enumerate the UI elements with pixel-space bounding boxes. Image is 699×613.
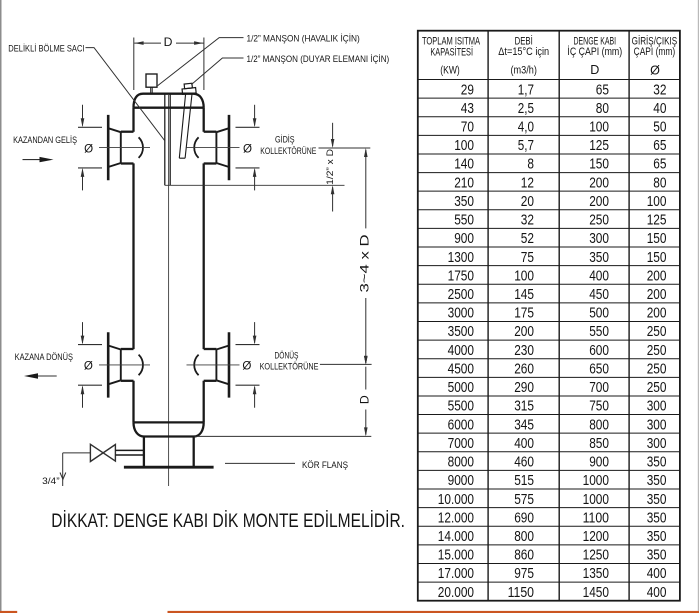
svg-text:20.000: 20.000 bbox=[438, 584, 474, 601]
svg-text:1350: 1350 bbox=[583, 565, 609, 582]
svg-text:1250: 1250 bbox=[583, 547, 609, 564]
leader to air vent fitting bbox=[158, 38, 244, 86]
dimension D (lower) bbox=[365, 367, 367, 390]
open arrowhead on drain bbox=[60, 473, 66, 480]
svg-text:12.000: 12.000 bbox=[438, 509, 474, 526]
nozzle lower-right (dönüş) bbox=[228, 332, 231, 397]
nozzle upper-left (kazandan geliş) bbox=[107, 115, 110, 180]
svg-text:6000: 6000 bbox=[448, 416, 474, 433]
svg-text:KÖR FLANŞ: KÖR FLANŞ bbox=[302, 460, 348, 470]
svg-text:145: 145 bbox=[514, 286, 534, 303]
svg-text:14.000: 14.000 bbox=[438, 528, 474, 545]
svg-text:125: 125 bbox=[589, 137, 609, 154]
svg-text:İÇ ÇAPI (mm): İÇ ÇAPI (mm) bbox=[567, 45, 622, 58]
svg-text:350: 350 bbox=[647, 547, 667, 564]
flow arrow in (right-pointing) bbox=[23, 159, 42, 161]
svg-text:(m3/h): (m3/h) bbox=[511, 64, 537, 76]
leader to sensor fitting bbox=[191, 58, 243, 85]
svg-text:100: 100 bbox=[514, 267, 534, 284]
svg-text:500: 500 bbox=[589, 305, 609, 322]
svg-text:KAPASİTESİ: KAPASİTESİ bbox=[430, 46, 473, 59]
svg-text:4,0: 4,0 bbox=[518, 118, 534, 135]
svg-text:100: 100 bbox=[589, 118, 609, 135]
svg-text:1/2” MANŞON (DUYAR ELEMANI İÇİ: 1/2” MANŞON (DUYAR ELEMANI İÇİN) bbox=[247, 54, 390, 65]
dimension 3~4 x D bbox=[365, 150, 367, 229]
svg-text:3/4”: 3/4” bbox=[42, 476, 60, 487]
diameter ticks lower-right bbox=[236, 344, 260, 346]
perforated baffle plate (delikli bölme sacı) bbox=[164, 94, 166, 186]
page bottom rule (orange) right segment bbox=[168, 611, 699, 613]
label KÖR FLANŞ with leader bbox=[225, 462, 295, 464]
drain valve bbox=[90, 444, 115, 461]
nozzle lower-left (kazana dönüş) bbox=[107, 332, 110, 397]
svg-text:100: 100 bbox=[454, 137, 474, 154]
svg-text:250: 250 bbox=[647, 323, 667, 340]
svg-text:29: 29 bbox=[461, 81, 474, 98]
sensor fitting (manşon) bbox=[182, 83, 197, 94]
svg-text:10.000: 10.000 bbox=[438, 491, 474, 508]
svg-text:460: 460 bbox=[514, 454, 534, 471]
svg-text:1450: 1450 bbox=[583, 584, 609, 601]
svg-text:1/2” MANŞON (HAVALIK İÇİN): 1/2” MANŞON (HAVALIK İÇİN) bbox=[247, 34, 360, 45]
svg-text:200: 200 bbox=[589, 174, 609, 191]
nozzle upper-right (gidiş) bbox=[228, 115, 231, 180]
svg-text:150: 150 bbox=[647, 249, 667, 266]
svg-text:1000: 1000 bbox=[583, 472, 609, 489]
svg-text:850: 850 bbox=[589, 435, 609, 452]
svg-text:1100: 1100 bbox=[583, 509, 609, 526]
svg-text:3500: 3500 bbox=[448, 323, 474, 340]
svg-text:32: 32 bbox=[521, 212, 534, 229]
dimension 1/2&quot; x D bbox=[332, 123, 334, 146]
dimension D (top, vessel diameter) bbox=[133, 38, 135, 91]
svg-text:D: D bbox=[358, 395, 372, 404]
table row lines bbox=[418, 97, 680, 99]
table frame bbox=[418, 31, 680, 601]
svg-text:D: D bbox=[590, 63, 599, 77]
svg-text:200: 200 bbox=[647, 267, 667, 284]
svg-text:575: 575 bbox=[514, 491, 534, 508]
svg-text:230: 230 bbox=[514, 342, 534, 359]
svg-text:150: 150 bbox=[589, 156, 609, 173]
svg-text:550: 550 bbox=[589, 323, 609, 340]
svg-text:20: 20 bbox=[521, 193, 534, 210]
svg-text:17.000: 17.000 bbox=[438, 565, 474, 582]
svg-text:75: 75 bbox=[521, 249, 534, 266]
vessel bottom extension line bbox=[195, 435, 372, 437]
svg-text:400: 400 bbox=[514, 435, 534, 452]
svg-text:1150: 1150 bbox=[508, 584, 534, 601]
svg-text:315: 315 bbox=[514, 398, 534, 415]
vessel shell left wall bbox=[132, 108, 134, 132]
svg-text:250: 250 bbox=[647, 360, 667, 377]
svg-text:300: 300 bbox=[589, 230, 609, 247]
svg-text:5000: 5000 bbox=[448, 379, 474, 396]
svg-text:150: 150 bbox=[647, 230, 667, 247]
svg-text:600: 600 bbox=[589, 342, 609, 359]
svg-text:350: 350 bbox=[647, 454, 667, 471]
svg-text:Δt=15°C için: Δt=15°C için bbox=[498, 46, 549, 58]
svg-text:9000: 9000 bbox=[448, 472, 474, 489]
air vent fitting bbox=[146, 74, 157, 87]
svg-text:40: 40 bbox=[653, 100, 666, 117]
diameter ticks upper-right bbox=[236, 126, 260, 128]
svg-text:400: 400 bbox=[647, 565, 667, 582]
svg-text:1750: 1750 bbox=[448, 267, 474, 284]
page right border bbox=[698, 0, 699, 613]
svg-text:Ø: Ø bbox=[243, 142, 252, 155]
svg-text:3~4 x D: 3~4 x D bbox=[357, 234, 371, 292]
svg-text:8000: 8000 bbox=[448, 454, 474, 471]
drain stub line bbox=[63, 452, 91, 454]
svg-text:400: 400 bbox=[589, 267, 609, 284]
drain pipe double line bbox=[115, 449, 143, 451]
svg-text:ÇAPI (mm): ÇAPI (mm) bbox=[634, 46, 676, 58]
svg-text:125: 125 bbox=[647, 212, 667, 229]
svg-text:650: 650 bbox=[589, 360, 609, 377]
baffle leader line bbox=[86, 48, 165, 141]
svg-text:350: 350 bbox=[647, 528, 667, 545]
svg-text:1,7: 1,7 bbox=[518, 81, 534, 98]
svg-text:700: 700 bbox=[589, 379, 609, 396]
svg-text:350: 350 bbox=[589, 249, 609, 266]
svg-text:290: 290 bbox=[514, 379, 534, 396]
svg-text:KOLLEKTÖRÜNE: KOLLEKTÖRÜNE bbox=[260, 361, 319, 371]
svg-text:200: 200 bbox=[647, 305, 667, 322]
vessel top head bbox=[134, 94, 204, 108]
svg-text:800: 800 bbox=[589, 416, 609, 433]
svg-text:KAZANA DÖNÜŞ: KAZANA DÖNÜŞ bbox=[15, 352, 73, 362]
svg-text:250: 250 bbox=[647, 379, 667, 396]
svg-text:50: 50 bbox=[653, 118, 666, 135]
vessel shell right wall bbox=[203, 108, 205, 132]
bottom neck bbox=[143, 437, 145, 467]
centerline upper-left nozzle bbox=[99, 147, 150, 149]
svg-text:750: 750 bbox=[589, 398, 609, 415]
svg-text:350: 350 bbox=[647, 509, 667, 526]
svg-text:5500: 5500 bbox=[448, 398, 474, 415]
lower nozzle centerline extension / leader bbox=[320, 363, 372, 365]
vessel centerline bbox=[168, 95, 170, 486]
svg-text:65: 65 bbox=[596, 81, 609, 98]
vessel bottom head bbox=[134, 421, 204, 423]
svg-text:3000: 3000 bbox=[448, 305, 474, 322]
svg-text:1300: 1300 bbox=[448, 249, 474, 266]
svg-text:2,5: 2,5 bbox=[518, 100, 534, 117]
svg-text:175: 175 bbox=[514, 305, 534, 322]
centerline upper-right nozzle bbox=[187, 147, 240, 149]
svg-text:860: 860 bbox=[514, 547, 534, 564]
svg-text:4500: 4500 bbox=[448, 360, 474, 377]
svg-text:8: 8 bbox=[527, 156, 534, 173]
svg-text:32: 32 bbox=[653, 81, 666, 98]
diameter ticks upper-left bbox=[78, 126, 102, 128]
table column dividers bbox=[487, 31, 489, 601]
svg-text:400: 400 bbox=[647, 584, 667, 601]
baffle bottom extension line bbox=[165, 184, 345, 186]
svg-text:100: 100 bbox=[647, 193, 667, 210]
svg-text:65: 65 bbox=[653, 156, 666, 173]
svg-text:140: 140 bbox=[454, 156, 474, 173]
svg-text:210: 210 bbox=[454, 174, 474, 191]
svg-text:(KW): (KW) bbox=[440, 64, 460, 76]
svg-text:Ø: Ø bbox=[650, 64, 660, 78]
page bottom rule (orange) left segment bbox=[0, 611, 17, 613]
centerline lower-right nozzle bbox=[187, 364, 240, 366]
diameter ticks lower-left bbox=[78, 344, 102, 346]
flow arrow out (left-pointing) bbox=[38, 375, 57, 377]
svg-text:KOLLEKTÖRÜNE: KOLLEKTÖRÜNE bbox=[260, 146, 316, 156]
blind flange (kör flanş) bbox=[124, 466, 214, 469]
svg-text:900: 900 bbox=[454, 230, 474, 247]
svg-text:300: 300 bbox=[647, 435, 667, 452]
table header divider bbox=[418, 79, 680, 81]
svg-text:900: 900 bbox=[589, 454, 609, 471]
svg-text:515: 515 bbox=[514, 472, 534, 489]
svg-text:1/2” x D: 1/2” x D bbox=[325, 149, 335, 185]
svg-text:260: 260 bbox=[514, 360, 534, 377]
svg-text:KAZANDAN GELİŞ: KAZANDAN GELİŞ bbox=[13, 135, 77, 145]
svg-text:Ø: Ø bbox=[84, 359, 93, 372]
svg-text:DÖNÜŞ: DÖNÜŞ bbox=[275, 350, 299, 360]
upper nozzle centerline extension bbox=[319, 147, 371, 149]
svg-text:200: 200 bbox=[589, 193, 609, 210]
svg-text:65: 65 bbox=[653, 137, 666, 154]
svg-text:DELİKLİ BÖLME SACI: DELİKLİ BÖLME SACI bbox=[8, 43, 84, 53]
svg-text:300: 300 bbox=[647, 416, 667, 433]
svg-text:300: 300 bbox=[647, 398, 667, 415]
svg-text:200: 200 bbox=[647, 286, 667, 303]
svg-text:690: 690 bbox=[514, 509, 534, 526]
svg-text:550: 550 bbox=[454, 212, 474, 229]
svg-text:1200: 1200 bbox=[583, 528, 609, 545]
svg-text:5,7: 5,7 bbox=[518, 137, 534, 154]
svg-text:350: 350 bbox=[454, 193, 474, 210]
svg-text:450: 450 bbox=[589, 286, 609, 303]
svg-text:1000: 1000 bbox=[583, 491, 609, 508]
centerline lower-left nozzle bbox=[99, 364, 150, 366]
svg-text:80: 80 bbox=[653, 174, 666, 191]
svg-text:350: 350 bbox=[647, 491, 667, 508]
svg-text:52: 52 bbox=[521, 230, 534, 247]
page left border bbox=[0, 0, 2, 613]
svg-text:200: 200 bbox=[514, 323, 534, 340]
svg-text:Ø: Ø bbox=[84, 142, 93, 155]
svg-text:43: 43 bbox=[461, 100, 474, 117]
svg-text:800: 800 bbox=[514, 528, 534, 545]
thermowell tube bbox=[179, 94, 192, 158]
svg-text:80: 80 bbox=[596, 100, 609, 117]
svg-text:D: D bbox=[164, 35, 173, 49]
svg-text:Ø: Ø bbox=[242, 359, 251, 372]
svg-text:350: 350 bbox=[647, 472, 667, 489]
svg-text:15.000: 15.000 bbox=[438, 547, 474, 564]
svg-text:250: 250 bbox=[589, 212, 609, 229]
svg-text:975: 975 bbox=[514, 565, 534, 582]
svg-text:70: 70 bbox=[461, 118, 474, 135]
svg-text:12: 12 bbox=[521, 174, 534, 191]
svg-text:2500: 2500 bbox=[448, 286, 474, 303]
svg-text:DİKKAT: DENGE KABI DİK MON: DİKKAT: DENGE KABI DİK MONTE EDİLMELİDİR… bbox=[51, 509, 405, 532]
svg-text:GİDİŞ: GİDİŞ bbox=[275, 135, 295, 145]
svg-text:345: 345 bbox=[514, 416, 534, 433]
svg-text:4000: 4000 bbox=[448, 342, 474, 359]
svg-text:7000: 7000 bbox=[448, 435, 474, 452]
svg-text:250: 250 bbox=[647, 342, 667, 359]
